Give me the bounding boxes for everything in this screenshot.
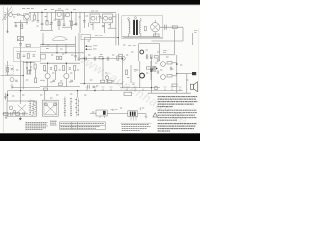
- capacitor C5: [63, 24, 66, 25]
- wire vertical x74.7: [74, 71, 76, 80]
- wire stub node 1: [86, 45, 92, 47]
- resistor R37: [117, 56, 119, 60]
- amp box outline left: [138, 44, 140, 61]
- transistor Q6 circle: [10, 78, 14, 82]
- mixer circle Q2: [66, 13, 70, 17]
- amp box outline right: [159, 44, 161, 61]
- capacitor C42: [15, 80, 17, 81]
- note p3 line 4 short: [158, 130, 170, 132]
- FM tuner box inner: [44, 102, 57, 115]
- wire R35 top lead: [35, 69, 37, 78]
- capacitor C36 lower mid: [92, 86, 94, 87]
- bus tick labels: [86, 86, 182, 88]
- amp box outline top: [139, 43, 160, 45]
- band tick x48: [47, 44, 49, 46]
- caption left line 5: [25, 129, 43, 131]
- switch bank comb A: [30, 100, 33, 116]
- relay box label: [41, 55, 46, 60]
- wire left input vertical: [7, 8, 9, 34]
- value labels speckle low band: [16, 63, 188, 86]
- wire C1 to Q1: [19, 15, 24, 16]
- caption mid-right line 2: [122, 126, 151, 128]
- label right of pickup: [111, 109, 118, 111]
- input cluster vertical x7.5: [7, 91, 9, 101]
- wire T1 secondary top lead: [140, 18, 142, 22]
- driver circle Q13: [154, 86, 158, 90]
- wire drop x84: [83, 12, 85, 28]
- comb A contact speckle: [29, 101, 37, 115]
- tuning capacitor C11: [17, 36, 23, 40]
- node dot B+: [86, 45, 88, 47]
- wire vertical x23 lower: [22, 61, 24, 89]
- transistor Q1 circle: [25, 14, 30, 19]
- wire y75.5: [1, 75, 24, 77]
- transformer bar 1: [130, 112, 131, 116]
- junction dot 2: [56, 52, 57, 53]
- caption mid-right line 4: [122, 129, 140, 131]
- table text row 1: [61, 123, 105, 125]
- wire long vertical x118.3: [117, 14, 119, 46]
- wire stub x44.4 tuner: [43, 91, 45, 101]
- wire vertical x57b: [56, 46, 58, 53]
- wire y54.5 horizontal: [160, 54, 175, 56]
- bottom row wire y113.8: [2, 113, 28, 115]
- wire main bus y90.6: [8, 90, 184, 92]
- bus tick x87: [86, 89, 88, 91]
- resistor R33 psu: [144, 26, 146, 30]
- power supply enclosure: [122, 16, 163, 39]
- caption left line 2: [25, 123, 46, 125]
- junction dot 16: [41, 12, 42, 13]
- wire bridge output right: [160, 26, 183, 28]
- wire stub y80: [40, 79, 45, 81]
- capacitor C2: [37, 21, 40, 22]
- wire drop x110: [109, 23, 111, 28]
- resistor R26b: [172, 84, 177, 87]
- capacitor C37: [134, 70, 136, 71]
- table divider 1: [71, 122, 73, 129]
- note p3 line 3: [158, 128, 194, 130]
- wire x174.5 vertical: [174, 30, 176, 55]
- transistor Q11 circle: [161, 75, 166, 80]
- bus tick x95: [94, 89, 96, 91]
- resistor R35: [35, 78, 37, 83]
- resistor R23 vertical: [154, 66, 156, 71]
- note text line 5 short: [158, 106, 173, 108]
- wire R1 leads: [33, 12, 35, 15]
- resistor R21: [108, 80, 112, 82]
- node dot x27: [26, 62, 28, 64]
- capacitor C4: [50, 23, 53, 24]
- caption mid line 2: [50, 122, 56, 124]
- wire vertical x77.5: [77, 91, 79, 98]
- label above F2: [91, 10, 98, 12]
- wire rail x177: [176, 55, 178, 93]
- wire vertical x55.7: [55, 71, 57, 80]
- resistor R6: [17, 54, 19, 59]
- value labels speckle mid band: [46, 41, 169, 58]
- caption mid-right box: [121, 122, 152, 124]
- value labels speckle bottom: [12, 94, 144, 112]
- wire long vertical x115.9: [115, 14, 117, 46]
- node dot x30.5: [30, 62, 32, 64]
- node dot driver: [156, 68, 158, 70]
- output transformer block outline: [128, 111, 138, 117]
- junction dot 7: [118, 37, 119, 38]
- wire dots link y62.4: [23, 61, 35, 63]
- wire vertical x30.5: [30, 62, 32, 74]
- table outline: [60, 122, 106, 129]
- dial cord cross 2: [18, 105, 27, 113]
- capacitor C13: [23, 55, 26, 56]
- ground top-left: [6, 30, 9, 33]
- pin dots: [131, 119, 136, 122]
- capacitor C6: [75, 23, 78, 24]
- dial cord cross 3: [45, 104, 56, 114]
- resistor R3: [58, 21, 60, 26]
- capacitor C20: [30, 69, 32, 70]
- pickup box: [96, 110, 107, 116]
- capacitor C22: [70, 80, 73, 82]
- wire drop x51.5: [51, 12, 53, 30]
- tuner unit box: [7, 101, 37, 116]
- note text block right paragraph 1 line 1: [158, 96, 198, 98]
- wire stub node 2: [86, 48, 92, 50]
- wire Q7 collector: [47, 63, 49, 73]
- wire T1 bottom leads: [129, 34, 141, 38]
- note text line 4: [158, 103, 194, 105]
- label TA vertical text: [4, 13, 6, 20]
- resistor R14: [7, 67, 9, 72]
- note paragraph 3 line 1: [158, 123, 197, 125]
- caption mid line 1: [50, 120, 57, 122]
- bus tick x180: [179, 89, 181, 91]
- capacitor C21: [52, 80, 55, 82]
- wire stub top-left: [15, 22, 17, 25]
- wire drop x104: [104, 23, 106, 33]
- wire drop x71.5: [71, 12, 73, 30]
- wire bus y63.2: [40, 62, 80, 64]
- resistor R2: [46, 20, 48, 25]
- wire psu bottom rail: [123, 36, 162, 38]
- wire vertical x27: [26, 62, 28, 74]
- wire drop x80: [79, 12, 81, 33]
- wire vertical x43: [42, 33, 44, 44]
- wire vertical x139: [139, 61, 141, 88]
- capacitor C23: [88, 85, 90, 89]
- antenna arrow diagonal: [7, 10, 14, 19]
- wire vertical x66b: [65, 46, 67, 53]
- note text line 2: [158, 98, 196, 100]
- wire vertical x84.3: [83, 38, 85, 84]
- tick marks in F2: [96, 16, 98, 20]
- IF can box top-left: [81, 35, 91, 40]
- output capacitor blob: [192, 72, 196, 75]
- tick above x140: [139, 107, 141, 110]
- wire C2 vertical: [37, 12, 39, 20]
- junction dot 10: [66, 63, 67, 64]
- input cluster vertical x5.5: [5, 93, 7, 100]
- capacitor C33 top-left: [15, 25, 18, 26]
- resistor R19: [74, 66, 76, 71]
- resistor R18: [62, 66, 64, 71]
- wire vertical x186.8: [186, 74, 188, 94]
- wire bus y83.6: [80, 83, 123, 85]
- watermark diagonal: [74, 51, 190, 128]
- resistor R16: [43, 66, 45, 71]
- IF transformer box F1: [56, 10, 63, 19]
- wire y113.6 right: [138, 113, 147, 115]
- capacitor C39: [60, 56, 62, 59]
- tuner pulley circle 3: [45, 103, 48, 106]
- table row divider: [60, 124, 106, 126]
- junction dot 12: [20, 90, 21, 91]
- ground symbol left: [11, 84, 14, 89]
- wire drop x88: [88, 23, 90, 27]
- junction dot 1: [42, 44, 43, 45]
- resistor R7: [27, 54, 29, 59]
- resistor R25b lower: [167, 75, 172, 77]
- speaker LS1 coil: [190, 84, 193, 89]
- junction dot 13: [77, 90, 78, 91]
- node dot B-: [86, 48, 88, 50]
- tuning cap arrow: [18, 37, 23, 40]
- transistor Q8 circle: [64, 73, 69, 78]
- wire Q14 lead: [106, 79, 108, 83]
- resistor R36: [99, 57, 103, 59]
- wire F3 output: [113, 16, 116, 18]
- switch bank comb B verticals: [65, 97, 79, 118]
- bus tick x103: [102, 89, 104, 91]
- resistor R15: [34, 64, 36, 69]
- capacitor C26: [4, 96, 7, 97]
- wire y30 lower link: [40, 29, 53, 31]
- capacitor C1: [18, 13, 19, 16]
- capacitor C12: [19, 44, 22, 45]
- capacitor C7: [83, 21, 86, 22]
- junction dot 18: [94, 90, 95, 91]
- junction dot 4: [84, 58, 85, 59]
- capacitor C27: [11, 112, 13, 116]
- capacitor C17: [151, 54, 152, 59]
- capacitor C19: [26, 67, 28, 68]
- resistor R32: [125, 70, 127, 75]
- warning triangle: [153, 113, 157, 117]
- band tick x57: [56, 44, 58, 46]
- junction dot 14: [151, 87, 152, 88]
- caption mid line 3: [50, 124, 57, 126]
- capacitor C35 mid: [69, 68, 71, 69]
- wire vertical pair x79: [78, 33, 80, 61]
- bus tick x127: [126, 89, 128, 91]
- bus tick x135: [134, 89, 136, 91]
- wire Q10 to rail: [172, 62, 177, 64]
- dial pointer blob: [52, 36, 67, 40]
- IF can box F3: [103, 14, 113, 23]
- node dot input: [7, 94, 9, 96]
- resistor R24 upper: [167, 62, 172, 64]
- wire y27 link: [62, 26, 72, 28]
- pickup pin ticks: [100, 116, 105, 118]
- bottom scan band: [0, 133, 200, 141]
- note p2 line 4: [158, 117, 197, 119]
- wire vertical x103: [102, 59, 104, 81]
- node dot rail: [176, 63, 178, 65]
- note p2 line 3: [158, 114, 195, 116]
- label 22k: [194, 30, 197, 32]
- transistor Q7 circle: [45, 73, 50, 78]
- wire Q8 emitter: [65, 79, 67, 87]
- bridge cross diagonal 1: [152, 24, 158, 30]
- transformer bar 2: [132, 112, 133, 116]
- bus tick x172: [171, 89, 173, 91]
- junction dot 9: [47, 63, 48, 64]
- resistor R26: [16, 113, 20, 116]
- diode D1 circle in F3: [109, 17, 112, 20]
- capacitor C28: [23, 112, 25, 116]
- bridge cross diagonal 2: [152, 24, 158, 30]
- capacitor C16: [146, 54, 147, 59]
- wire drop x76: [75, 12, 77, 26]
- wire vertical x131: [130, 65, 132, 83]
- transistor Q4 circle in F3: [104, 16, 108, 20]
- capacitor C38: [57, 56, 59, 59]
- label node text: [93, 46, 97, 49]
- label Tr.1 text row: [22, 8, 34, 10]
- wire in box: [16, 51, 36, 53]
- wire vertical x122.6: [122, 57, 124, 88]
- wire bus y87.6: [120, 87, 160, 89]
- wire rail x151.5: [151, 57, 153, 93]
- label y35: [95, 34, 102, 36]
- capacitor C15: [107, 57, 109, 61]
- pickup diode dark: [103, 111, 106, 115]
- capacitor C8: [102, 25, 105, 26]
- transistor Q3 circle in F2: [91, 16, 95, 20]
- wire drop x64: [63, 12, 65, 26]
- resistor R1: [33, 15, 35, 20]
- wire y113.6 left: [107, 112, 128, 114]
- capacitor C41 ticks: [78, 58, 81, 59]
- capacitor C34 mid: [50, 68, 52, 69]
- transistor Q5 circle: [140, 50, 144, 54]
- wire vertical x151: [150, 61, 152, 80]
- table text row 2: [61, 125, 101, 127]
- table divider 2: [77, 122, 79, 129]
- dial cord cross 1: [17, 104, 26, 113]
- capacitor C10 filter: [165, 25, 167, 30]
- IF can box F2: [90, 14, 100, 23]
- resistor R30 mid: [58, 83, 62, 85]
- transistor Q10 circle: [161, 62, 166, 67]
- comb B contact speckle: [64, 99, 79, 116]
- wire Q8 collector: [65, 63, 67, 73]
- tuner pulley circle 1: [9, 106, 13, 110]
- caption mid-right line 3: [122, 128, 147, 130]
- FM tuner box outer: [42, 100, 58, 116]
- wire x192 vertical: [191, 33, 193, 45]
- wire drop x42: [41, 12, 43, 30]
- transistor Q9 circle: [140, 73, 145, 78]
- resistor R25: [4, 112, 8, 115]
- dial cord cross 4: [45, 104, 56, 114]
- resistor R13 left cluster: [119, 54, 123, 56]
- capacitor C14: [94, 57, 96, 61]
- pot circle left cluster: [122, 57, 126, 61]
- caption left line 4: [25, 127, 46, 129]
- ground symbol right: [145, 114, 148, 119]
- resistor R4: [70, 21, 72, 26]
- capacitor C40 ticks: [74, 55, 77, 56]
- table text row 3: [61, 127, 97, 129]
- junction dot 5: [84, 83, 85, 84]
- resistor R20: [101, 80, 105, 82]
- bus tick x165: [164, 89, 166, 91]
- wire Q7 emitter: [47, 79, 49, 87]
- transformer T1 primary winding: [129, 21, 130, 34]
- note paragraph 2 line 1: [158, 109, 197, 111]
- wire y87.6 left: [12, 87, 40, 89]
- tick label x128 y46: [128, 45, 136, 47]
- wire long y41: [152, 40, 184, 42]
- box around Q1: [24, 13, 31, 20]
- wire Q11 to rail: [172, 75, 177, 77]
- wire bus y36.6: [122, 36, 160, 38]
- wire drop x47: [46, 12, 48, 22]
- transformer bar 3: [134, 112, 135, 116]
- resistor R22: [146, 67, 150, 69]
- transformer primary terminal: [128, 18, 130, 20]
- small box x124: [124, 92, 132, 95]
- note text line 3: [158, 101, 198, 103]
- capacitor C31: [157, 70, 159, 73]
- speaker LS1 cone: [193, 82, 197, 92]
- transformer T1 secondary winding: [140, 21, 141, 34]
- transformer T1 core bar 2: [136, 20, 138, 35]
- capacitor C30: [157, 59, 159, 62]
- capacitor C45 in box: [33, 55, 35, 56]
- note p3 line 2: [158, 125, 196, 127]
- ground stub left: [5, 115, 8, 118]
- bridge rectifier GR1 circle: [151, 23, 160, 32]
- label row above IF strip: [44, 8, 76, 11]
- wire speaker top: [177, 73, 192, 75]
- wire between F2 F3: [100, 17, 103, 19]
- wire node J1 to C1: [12, 14, 17, 16]
- transistor Q14 circle: [105, 76, 109, 80]
- tuner pulley circle 2: [13, 110, 15, 112]
- capacitor C44 ticks: [132, 83, 134, 84]
- value labels speckle top strip: [13, 16, 111, 26]
- dark cap driver: [150, 68, 152, 72]
- note p2 line 2: [158, 112, 197, 114]
- wire T1 primary top lead: [128, 20, 130, 22]
- capacitor C32: [170, 67, 172, 71]
- wire drop x93: [92, 23, 94, 30]
- transformer T1 core bar 1: [133, 20, 135, 35]
- fuse box: [153, 34, 159, 37]
- resistor R29 mid-left: [26, 44, 30, 46]
- caption left line 3: [25, 125, 47, 127]
- band switch box: [14, 48, 41, 62]
- wire y113.2 left stub: [90, 112, 96, 114]
- dashed box input filter: [6, 66, 14, 75]
- junction dot 17: [71, 12, 72, 13]
- capacitor C43: [85, 57, 87, 61]
- resistor R34 between pair: [28, 70, 30, 74]
- resistor R5 series: [172, 26, 177, 28]
- band tick x66: [65, 44, 67, 46]
